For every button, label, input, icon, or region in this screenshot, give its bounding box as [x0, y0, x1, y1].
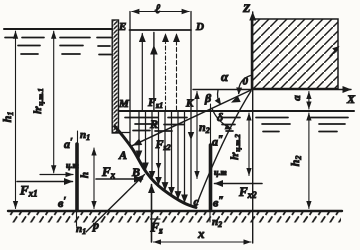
svg-text:X: X — [346, 92, 356, 106]
big left wall hatched — [112, 20, 118, 133]
pressure direction line p — [86, 175, 145, 233]
extension line left (E to A) — [129, 12, 131, 147]
ground hatching — [9, 212, 341, 223]
svg-text:α: α — [221, 69, 229, 84]
wall a-b prime (plane n1) — [75, 144, 79, 211]
dimension h'ct1 line — [53, 31, 55, 173]
svg-text:D: D — [195, 21, 204, 33]
svg-text:Z: Z — [242, 1, 251, 15]
left water surface — [4, 28, 112, 30]
svg-text:p: p — [92, 218, 99, 232]
line O to C — [196, 91, 251, 206]
structure block hatched — [252, 19, 339, 89]
uplift arrow 2 — [153, 33, 155, 111]
dimension h'ct2 line — [248, 113, 250, 176]
svg-text:δ: δ — [217, 110, 223, 124]
uplift arrow 1 — [141, 34, 143, 111]
angle delta arc — [212, 108, 231, 129]
svg-text:ц.т: ц.т — [214, 168, 227, 177]
angle beta arc — [218, 90, 221, 104]
dimension l line — [132, 11, 189, 13]
svg-text:ц.т: ц.т — [66, 161, 79, 170]
X axis — [193, 89, 351, 91]
svg-text:h: h — [79, 172, 91, 178]
dimension h2 line — [308, 113, 310, 209]
force Fx arrow — [96, 178, 143, 180]
n1 axis stub top — [77, 131, 79, 144]
svg-text:M: M — [118, 98, 130, 110]
dimension a line — [308, 92, 310, 110]
Fz2 weight arrows onto curve — [138, 112, 140, 159]
ct1 mark arrow — [40, 174, 73, 176]
svg-text:a: a — [291, 95, 303, 101]
force Fx2 arrow — [215, 183, 263, 185]
curved surface ABC — [115, 127, 196, 208]
dimension h line — [93, 148, 95, 209]
n2 axis stub top — [210, 104, 212, 145]
svg-text:E: E — [118, 21, 126, 33]
angle alpha arc — [239, 76, 251, 94]
extension line right (D to C) — [190, 12, 192, 207]
dimension x line — [154, 241, 252, 243]
n2 axis stub bottom — [209, 211, 211, 222]
svg-text:R: R — [149, 117, 158, 131]
svg-text:B: B — [131, 165, 140, 179]
small arrow on block right edge — [330, 49, 337, 57]
mid arrowhead on right extension — [188, 132, 194, 140]
svg-text:x: x — [197, 226, 205, 241]
uplift arrow 4 (dashed) — [176, 34, 178, 111]
n1 axis stub bottom — [76, 211, 78, 226]
svg-text:A: A — [118, 148, 127, 162]
dimension h1 line — [15, 31, 17, 208]
svg-text:K: K — [185, 98, 194, 110]
ground line — [8, 210, 342, 212]
E-D top line — [130, 29, 192, 31]
dimension line depth to ct2 (x=197) — [196, 92, 198, 179]
svg-text:β: β — [204, 91, 212, 105]
right water dashes — [125, 117, 158, 119]
force Fx1 arrow — [17, 181, 73, 183]
left water dashes — [5, 37, 13, 39]
mid arrowhead on Fz2 shaft — [156, 163, 162, 170]
R mid arrowhead — [229, 96, 240, 106]
svg-text:ℓ: ℓ — [155, 1, 161, 16]
wall a-b double prime (plane n2) — [209, 145, 213, 211]
resultant R line — [133, 90, 252, 146]
R end arrowhead — [131, 139, 142, 149]
Z axis — [252, 12, 254, 243]
wall bottom tick — [113, 132, 130, 134]
uplift arrow 3 (dash-dot) — [165, 34, 167, 111]
right water surface M-K line — [119, 110, 355, 112]
force Fz arrow — [151, 185, 153, 243]
